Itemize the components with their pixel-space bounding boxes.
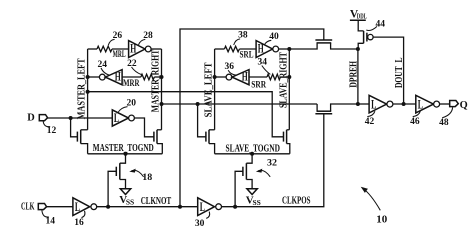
label 42 with leader [365,111,375,127]
junction DPREH top [356,47,360,51]
label 20 with leader [118,99,136,113]
transistor Q44 [358,20,373,49]
junction clknot riser [178,205,182,209]
junction SR row1 [287,47,291,51]
svg-text:24: 24 [98,60,108,70]
junction MR wireB [160,102,164,106]
node CLKPOS wire [222,114,324,207]
label 12 with leader [43,121,56,136]
label 22 with leader [127,59,141,75]
wire inverter46 to pad48 [440,103,450,105]
svg-text:DOUT_L: DOUT_L [394,57,405,88]
svg-text:36: 36 [224,62,234,72]
label 10 with arrow [361,187,388,226]
wire inverter42 to inverter46 [393,103,416,105]
transistor master right [154,130,162,154]
inverter U30 [198,198,222,216]
node MASTER_LEFT vertical wire [77,49,88,130]
node MASTER_TOGND wire [88,143,163,154]
label 48 with leader [439,107,452,128]
svg-text:14: 14 [45,217,55,227]
svg-text:L: L [114,111,119,125]
junction clkpos Q32 gate [233,205,237,209]
ground Vss of Q32 [246,189,261,207]
junction clknot Q18 gate [106,205,110,209]
inverter U36 [226,70,249,85]
svg-text:L: L [200,200,205,214]
junction master tognd [124,152,128,156]
svg-text:L: L [371,97,376,111]
svg-text:SRR: SRR [251,81,266,91]
node SLAVE_RIGHT vertical wire [278,49,289,130]
input pad 14 [38,204,46,210]
svg-text:D: D [27,113,35,124]
transistor slave left [206,130,215,154]
label 30 with leader [195,212,210,229]
inverter U20 [112,110,134,126]
svg-text:MASTER_LEFT: MASTER_LEFT [77,58,88,119]
svg-text:DPREH: DPREH [349,61,360,88]
svg-text:MRL: MRL [113,50,126,60]
wire B MASTER_RIGHT to bottom pass transistor [162,103,318,105]
wire slave feedback row1 [215,48,290,50]
svg-text:H: H [115,70,121,84]
label 40 with leader [265,32,280,45]
junction SR row2 [287,75,291,79]
svg-text:12: 12 [47,126,57,136]
inverter U46 [416,95,440,113]
svg-text:MASTER_RIGHT: MASTER_RIGHT [150,50,161,113]
junction ML row2 [86,75,90,79]
resistor MRR 22 [123,74,154,89]
svg-text:H: H [130,42,136,56]
svg-text:16: 16 [74,218,84,228]
svg-text:CLK: CLK [21,202,35,213]
wire slave left gate riser [198,104,206,137]
svg-text:20: 20 [126,99,136,109]
wire master feedback row1 [88,48,162,50]
node CLKNOT wire [97,196,198,207]
junction DOUT_L bottom [402,102,406,106]
resistor SRL 38 [224,46,253,60]
svg-text:46: 46 [410,117,420,127]
svg-text:30: 30 [195,219,205,229]
svg-text:L: L [418,97,423,111]
label 16 with leader [74,211,85,228]
label 18 with arrow [129,169,152,184]
wire D input row [48,117,113,119]
transistor pass top [289,40,358,49]
svg-text:MASTER_TOGND: MASTER_TOGND [93,143,154,154]
svg-text:SS: SS [126,198,134,207]
inverter U40 [256,41,279,58]
inverter U42 [369,95,393,113]
transistor Q32 [235,154,252,207]
junction slave tognd [250,152,254,156]
svg-text:CLKNOT: CLKNOT [141,196,172,207]
label 24 with leader [98,60,110,75]
wire inverter20 output to master right gate [135,118,154,137]
svg-text:H: H [242,70,248,84]
label 36 with leader [224,62,236,75]
power VDDL rail [350,9,367,21]
label 44 with leader [366,20,385,31]
output pad 48 [450,101,459,107]
inverter U16 [73,198,97,216]
svg-text:Q: Q [460,100,468,111]
transistor Q18 [108,154,125,207]
wire DPREH to inverter42 [358,103,369,105]
wire master feedback row2 [88,76,162,78]
wire slave feedback row2 [215,76,290,78]
svg-text:SS: SS [253,198,261,207]
node SLAVE_LEFT vertical wire [203,49,214,130]
svg-text:L: L [75,200,80,214]
node SLAVE_TOGND wire [215,143,290,154]
node DOUT_L wire [373,37,405,104]
label 32 with arrow [256,159,277,177]
inverter U24 [99,70,122,85]
input pad 12 [39,115,47,121]
label 38 with leader [234,31,248,45]
svg-text:44: 44 [376,20,386,30]
svg-text:32: 32 [267,159,277,169]
label 14 with leader [42,210,55,226]
junction D row [69,116,73,120]
label 34 with leader [258,57,271,74]
svg-text:SRL: SRL [240,50,254,60]
svg-text:SLAVE_RIGHT: SLAVE_RIGHT [278,52,289,108]
svg-text:H: H [258,42,264,56]
wire D to master left gate [71,118,78,137]
label 26 with leader [108,31,122,45]
svg-text:10: 10 [376,213,388,225]
junction MR row2 [160,75,164,79]
junction ML wireA [86,90,90,94]
transistor master left [77,130,87,154]
svg-text:42: 42 [365,117,375,127]
label 46 with leader [410,111,420,127]
svg-text:CLKPOS: CLKPOS [282,196,311,207]
wire clknot riser to top pass gate [180,29,324,207]
transistor pass bottom [315,104,358,114]
wire CLK pad to inverter16 [47,206,73,208]
ground Vss of Q18 [119,189,134,207]
svg-text:MRR: MRR [123,79,140,89]
resistor MRL 26 [97,46,126,60]
transistor slave right [284,130,290,154]
inverter U28 [129,41,152,58]
wire A MASTER_LEFT to slave right gate [88,92,284,137]
label 28 with leader [139,31,154,45]
node DPREH vertical wire [349,49,360,104]
junction wireB slave gate riser [196,102,200,106]
svg-text:18: 18 [142,173,152,183]
node MASTER_RIGHT vertical wire [150,49,161,130]
svg-text:DDL: DDL [357,13,367,21]
svg-text:48: 48 [439,118,449,128]
svg-text:SLAVE_LEFT: SLAVE_LEFT [203,62,214,117]
junction DPREH bottom [356,102,360,106]
resistor SRR 34 [251,74,280,90]
junction SL row2 [213,75,217,79]
